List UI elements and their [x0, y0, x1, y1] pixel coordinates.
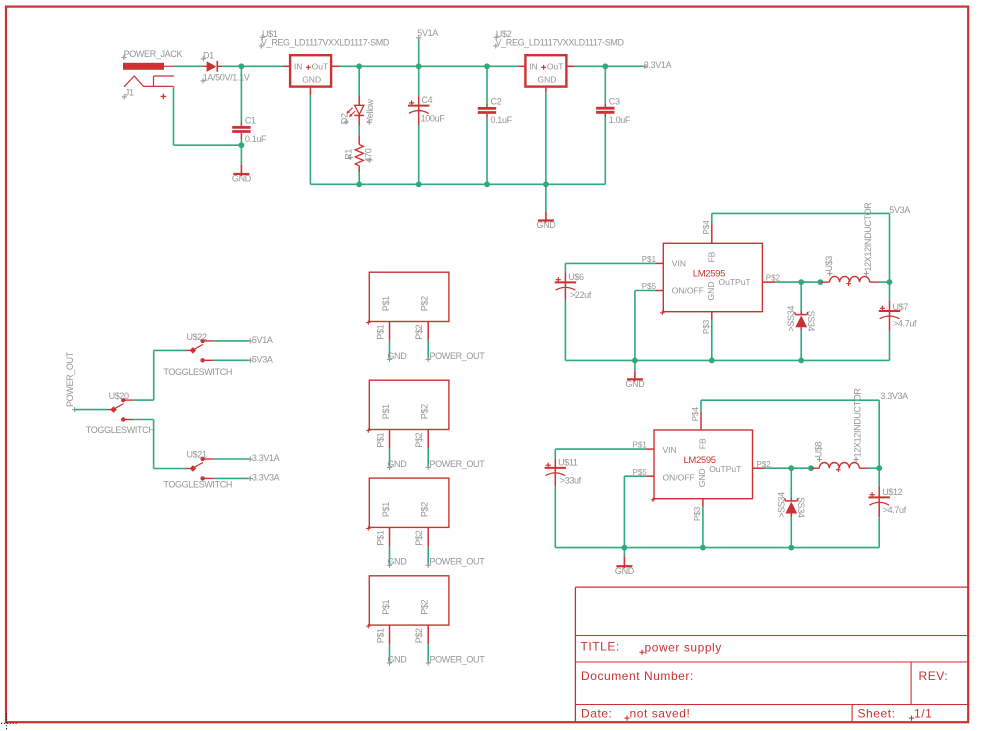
label U$22 [187, 332, 207, 342]
svg-text:GND: GND [697, 468, 707, 487]
pin U$10 GND P$3 [693, 499, 703, 521]
label TOGGLESWITCH U$20 [86, 425, 155, 435]
svg-text:TOGGLESWITCH: TOGGLESWITCH [163, 367, 232, 377]
svg-text:1A/50V/1.1V: 1A/50V/1.1V [203, 73, 250, 83]
svg-text:V_REG_LD1117VXXLD1117-SMD: V_REG_LD1117VXXLD1117-SMD [261, 38, 390, 48]
svg-text:>22uf: >22uf [570, 290, 592, 300]
junction output diode [798, 279, 804, 285]
wire U$6 to VIN [565, 262, 655, 264]
connector J4 pin P$2 [414, 625, 428, 644]
junction bus2 GND pin [700, 545, 706, 551]
junction bus1 ON/OFF [632, 358, 638, 364]
svg-text:OuT: OuT [312, 61, 329, 71]
label POWER_OUT vertical [65, 351, 75, 407]
svg-text:POWER_OUT: POWER_OUT [430, 351, 486, 361]
capacitor C1 0.1uF [232, 116, 267, 145]
net label 5V3A [889, 205, 910, 215]
wire U$21 to 3.3V1A [213, 458, 250, 460]
wire top gnd bus [310, 183, 605, 185]
label U$3 [824, 256, 834, 277]
label D1 [201, 50, 214, 61]
pin U$10 VIN P$1 [633, 441, 655, 450]
svg-text:P$1: P$1 [381, 404, 391, 419]
svg-text:GND: GND [232, 174, 252, 184]
wire LED branch down [358, 66, 360, 96]
inductor U$8 coil [819, 462, 859, 472]
wire inductor to 5V3A node [879, 281, 890, 283]
wire to diode U$4 [800, 282, 802, 312]
svg-text:Date:: Date: [581, 706, 612, 720]
svg-text:OuTPuT: OuTPuT [709, 464, 741, 474]
svg-text:U$12: U$12 [882, 487, 902, 497]
ground GND top section [536, 184, 556, 230]
wire ON/OFF down to bus [634, 291, 636, 361]
ground GND at C1 [232, 145, 252, 184]
wire C4 to gnd bus [418, 125, 420, 185]
wire 5V3A right drop [889, 213, 891, 282]
svg-text:C3: C3 [609, 96, 620, 106]
svg-text:5V3A: 5V3A [252, 354, 273, 364]
pin U$1 GND [309, 87, 311, 96]
title block text not saved! [624, 706, 690, 720]
svg-text:3.3V3A: 3.3V3A [880, 391, 908, 401]
wire POWER_OUT net stub J1 [427, 341, 429, 360]
svg-text:1/1: 1/1 [914, 706, 932, 720]
svg-text:>4.7uf: >4.7uf [883, 505, 907, 515]
svg-text:P$1: P$1 [375, 628, 385, 643]
label U$21 [187, 450, 207, 460]
capacitor C3 1.0uF [596, 96, 631, 125]
wire U$20 throw2 [134, 419, 154, 421]
pin U$2 GND [545, 87, 547, 93]
svg-text:SS34: SS34 [796, 497, 806, 518]
label U$1 [260, 29, 278, 40]
svg-text:POWER_OUT: POWER_OUT [65, 351, 75, 407]
svg-text:V_REG_LD1117VXXLD1117-SMD: V_REG_LD1117VXXLD1117-SMD [496, 38, 625, 48]
junction 3.3V3A node [876, 465, 882, 471]
diode D1 [202, 61, 222, 72]
inductor U$8 lead [811, 467, 819, 469]
connector J1 pin P$1 [375, 322, 389, 341]
svg-text:not saved!: not saved! [630, 706, 691, 720]
junction output 2 diode [788, 465, 794, 471]
wire C2 to gnd bus [486, 117, 488, 184]
ground GND circuit 2 [615, 548, 635, 576]
wire GND net stub J4 [389, 644, 391, 663]
wire U$2 GND down [545, 92, 547, 184]
toggle switch U$22 [186, 339, 213, 363]
pin U$5 GND P$3 [702, 312, 712, 334]
toggle switch U$20 [107, 398, 134, 422]
svg-text:12X12INDUCTOR: 12X12INDUCTOR [853, 388, 863, 458]
svg-text:P$4: P$4 [691, 407, 700, 422]
svg-text:IN: IN [294, 61, 303, 71]
wire to U$22 common [154, 349, 188, 351]
svg-text:>SS34: >SS34 [786, 306, 796, 332]
connector J1 pin P$2 [414, 322, 428, 341]
title block label Sheet [858, 706, 896, 720]
wire J1 return down [173, 86, 175, 145]
svg-text:U$22: U$22 [187, 332, 207, 342]
svg-text:GND: GND [538, 74, 557, 84]
junction bus R1 [356, 181, 362, 187]
net label 3.3V3A at U$21 [248, 472, 280, 482]
title block label REV [919, 669, 949, 683]
capacitor C4 100uF [408, 95, 445, 125]
svg-text:P$2: P$2 [414, 530, 424, 545]
svg-text:OuT: OuT [547, 61, 564, 71]
junction bus1 diode [798, 358, 804, 364]
pin U$2 IN [518, 65, 525, 67]
svg-text:P$4: P$4 [702, 220, 711, 235]
wire to C3 [604, 66, 606, 104]
svg-text:GND: GND [387, 654, 407, 664]
svg-text:C2: C2 [491, 97, 502, 107]
wire GND net stub J1 [389, 341, 391, 360]
net stub 5V1A [416, 35, 421, 66]
connector J3 pin P$2 [414, 527, 428, 546]
wire diode 2 to bus [790, 517, 792, 548]
svg-text:GND: GND [706, 282, 716, 301]
junction bus U$2 GND [543, 181, 549, 187]
svg-text:IN: IN [529, 61, 538, 71]
net stub POWER_OUT to U$20 [72, 407, 107, 412]
wire C1 to gnd node [240, 139, 242, 145]
wire to C2 [486, 66, 488, 104]
wire gnd bus circuit 1 [565, 359, 889, 361]
wire J1 to D1 [173, 65, 202, 67]
svg-text:POWER_OUT: POWER_OUT [430, 459, 486, 469]
label 1A/50V/1.1V [200, 73, 249, 84]
svg-text:P$2: P$2 [420, 599, 430, 614]
connector J2 pin P$1 [375, 430, 389, 449]
junction C2 branch [484, 63, 490, 69]
svg-text:R1: R1 [344, 149, 354, 160]
svg-text:>33uf: >33uf [560, 476, 582, 486]
svg-text:POWER_OUT: POWER_OUT [430, 557, 486, 567]
svg-text:D1: D1 [203, 50, 214, 60]
junction 5V3A node [887, 279, 893, 285]
svg-text:ON/OFF: ON/OFF [663, 472, 695, 482]
svg-text:P$2: P$2 [420, 502, 430, 517]
svg-text:OuTPuT: OuTPuT [719, 277, 751, 287]
wire 3.3V3A right drop [878, 400, 880, 468]
wire OUTPUT to inductor [775, 281, 820, 283]
wire C3 down to gnd bus [604, 117, 606, 184]
net label GND J4 [387, 654, 407, 665]
svg-text:3.3V1A: 3.3V1A [644, 60, 672, 70]
svg-text:U$20: U$20 [109, 391, 129, 401]
pin U$10 ON/OFF P$5 [633, 468, 655, 477]
svg-text:3.3V1A: 3.3V1A [252, 453, 280, 463]
wire U$21 to 3.3V3A [213, 477, 250, 479]
wire gnd bus circuit 2 [555, 547, 879, 549]
label U$20 [109, 391, 129, 401]
net label GND J3 [387, 557, 407, 568]
connector J4 pin P$1 [375, 625, 389, 644]
svg-text:VIN: VIN [672, 258, 686, 268]
capacitor U$6 22uf [555, 263, 592, 300]
label 12X12INDUCTOR circuit 1 [863, 202, 873, 276]
svg-text:Sheet:: Sheet: [858, 706, 896, 720]
label 12X12INDUCTOR circuit 2 [853, 388, 863, 462]
junction inductor in [817, 279, 823, 285]
ground GND circuit 1 [625, 360, 645, 389]
svg-text:U$11: U$11 [558, 457, 578, 467]
svg-text:P$1: P$1 [381, 296, 391, 311]
junction bus2 ON/OFF [622, 545, 628, 551]
pin U$5 VIN P$1 [642, 255, 664, 264]
svg-text:Yellow: Yellow [365, 98, 375, 122]
junction C1 bottom [239, 142, 245, 148]
net label 5V1A [417, 28, 438, 38]
diode U$9 lead [790, 514, 792, 518]
svg-text:TOGGLESWITCH: TOGGLESWITCH [163, 479, 232, 489]
wire U$1 GND down [309, 95, 311, 184]
connector J2 POWER_OUT header box [366, 380, 449, 433]
svg-text:P$1: P$1 [375, 432, 385, 447]
net label POWER_OUT J3 [426, 557, 486, 568]
pin U$1 IN [283, 65, 290, 67]
wire GND net stub J2 [389, 449, 391, 468]
label V_REG_LD1117VXXLD1117-SMD U$2 [493, 38, 624, 49]
svg-text:GND: GND [387, 557, 407, 567]
wire POWER_OUT net stub J4 [427, 644, 429, 663]
wire J1 return across [174, 144, 242, 146]
wire LED to R1 [358, 125, 360, 135]
svg-text:VIN: VIN [663, 445, 677, 455]
svg-text:P$1: P$1 [375, 530, 385, 545]
regulator U$2 LD1117 body [525, 55, 566, 86]
label 470 [363, 148, 373, 162]
wire U$22 to 5V3A [213, 359, 250, 361]
inductor U$3 lead [820, 281, 829, 283]
pin U$1 OUT [331, 65, 340, 67]
wire FB rail top 2 [701, 399, 879, 401]
wire down to C1 [240, 66, 242, 121]
svg-text:U$3: U$3 [824, 256, 834, 272]
svg-text:power supply: power supply [645, 641, 722, 655]
svg-text:P$2: P$2 [420, 404, 430, 419]
power jack J1 [123, 63, 174, 99]
inductor U$3 coil [830, 276, 870, 286]
net label 3.3V3A [880, 391, 908, 401]
wire inductor 2 to 3.3V3A node [868, 467, 879, 469]
wire to U$21 common [154, 468, 188, 470]
label D2 [340, 113, 350, 124]
svg-text:GND: GND [536, 220, 556, 230]
wire U$11 down to bus 2 [554, 486, 556, 547]
svg-text:P$1: P$1 [381, 502, 391, 517]
title block text power supply [639, 641, 721, 655]
wire U$11 to VIN 2 [555, 448, 646, 450]
wire U$6 down to bus [564, 301, 566, 361]
svg-text:U$7: U$7 [893, 302, 909, 312]
junction C4 / 5V1A label [416, 63, 422, 69]
pin U$5 ON/OFF P$5 [642, 282, 664, 291]
svg-text:U$8: U$8 [814, 441, 824, 457]
wire U$20 throw1 [134, 399, 154, 401]
svg-text:100uF: 100uF [421, 113, 446, 123]
svg-text:P$3: P$3 [702, 319, 711, 334]
inductor U$8 lead out [859, 467, 868, 469]
toggle switch U$21 [186, 457, 213, 481]
pin U$10 FB P$4 [691, 407, 701, 430]
svg-text:5V3A: 5V3A [889, 205, 910, 215]
svg-text:FB: FB [697, 438, 707, 449]
title block label TITLE [581, 640, 620, 654]
svg-text:J1: J1 [125, 88, 134, 98]
wire POWER_OUT net stub J2 [427, 449, 429, 468]
label R1 [344, 149, 354, 160]
svg-text:GND: GND [302, 74, 321, 84]
svg-text:TITLE:: TITLE: [581, 640, 620, 654]
svg-text:POWER_OUT: POWER_OUT [430, 654, 486, 664]
title block frame [575, 587, 968, 722]
net label POWER_OUT J1 [426, 351, 486, 362]
title block label Document Number [581, 669, 694, 683]
junction node VIN / C1 [239, 63, 245, 69]
svg-text:C4: C4 [422, 95, 433, 105]
label Yellow [365, 98, 375, 124]
svg-text:SS34: SS34 [806, 311, 816, 332]
schottky diode U$9 SS34 [776, 492, 806, 518]
wire diode to bus [800, 331, 802, 361]
wire trunk up to U$22 [153, 350, 155, 400]
svg-text:>4.7uf: >4.7uf [893, 319, 917, 329]
capacitor U$12 4.7uf [869, 468, 907, 517]
svg-text:0.1uF: 0.1uF [491, 115, 513, 125]
junction bus C4 [416, 181, 422, 187]
net label 5V3A at U$22 [248, 354, 273, 364]
svg-text:3.3V3A: 3.3V3A [252, 472, 280, 482]
connector J4 POWER_OUT header box [366, 576, 449, 629]
svg-text:TOGGLESWITCH: TOGGLESWITCH [86, 425, 155, 435]
svg-text:5V1A: 5V1A [417, 28, 438, 38]
connector J1 POWER_OUT header box [366, 272, 449, 325]
sheet origin dotted cross [1, 714, 17, 731]
wire U$22 to 5V1A [213, 340, 250, 342]
wire FB rail top [712, 212, 890, 214]
label V_REG_LD1117VXXLD1117-SMD U$1 [259, 38, 390, 49]
pin U$10 OUTPUT P$2 [753, 460, 772, 469]
svg-text:GND: GND [387, 459, 407, 469]
svg-text:12X12INDUCTOR: 12X12INDUCTOR [863, 202, 873, 272]
connector J3 pin P$1 [375, 527, 389, 546]
label J1 [122, 88, 134, 100]
wire 5V1A rail U$1 OUT to U$2 IN [340, 65, 519, 67]
svg-text:P$3: P$3 [693, 506, 702, 521]
wire ON/OFF [635, 290, 656, 292]
schottky diode U$4 SS34 [786, 306, 816, 332]
net label 3.3V1A at U$21 [248, 453, 280, 463]
wire FB up [711, 213, 713, 224]
wire FB 2 up [700, 400, 702, 411]
net label 5V1A at U$22 [248, 335, 273, 345]
pin U$2 OUT [566, 65, 574, 67]
label POWER_JACK [121, 49, 182, 60]
svg-text:GND: GND [625, 379, 645, 389]
net label POWER_OUT J4 [426, 654, 486, 665]
label U$2 [494, 29, 512, 40]
svg-text:C1: C1 [245, 116, 256, 126]
wire ON/OFF 2 [624, 475, 646, 477]
wire POWER_OUT net stub J3 [427, 546, 429, 565]
svg-text:5V1A: 5V1A [252, 335, 273, 345]
svg-text:POWER_JACK: POWER_JACK [124, 49, 183, 59]
svg-text:>SS34: >SS34 [776, 492, 786, 518]
resistor R1 470 [355, 135, 363, 172]
wire U$2 OUT to 3.3V1A [575, 65, 645, 67]
label U$8 [814, 441, 824, 462]
label TOGGLESWITCH U$21 [163, 479, 232, 489]
regulator U$5 LM2595 body [660, 243, 762, 315]
svg-text:ON/OFF: ON/OFF [672, 286, 704, 296]
junction LED branch [356, 63, 362, 69]
pin U$5 OUTPUT P$2 [762, 274, 780, 283]
junction C3 branch [602, 63, 608, 69]
wire U$12 to bus 2 [878, 517, 880, 547]
connector J3 POWER_OUT header box [366, 478, 449, 531]
inductor U$3 lead out [870, 281, 879, 283]
svg-text:GND: GND [615, 566, 635, 576]
junction bus1 GND pin [709, 358, 715, 364]
capacitor C2 0.1uF [478, 97, 513, 126]
connector J2 pin P$2 [414, 430, 428, 449]
wire D1 to U$1 IN [222, 65, 283, 67]
svg-text:U$6: U$6 [568, 272, 584, 282]
title block text 1/1 [909, 706, 932, 720]
svg-text:P$1: P$1 [375, 324, 385, 339]
svg-text:REV:: REV: [919, 669, 949, 683]
junction bus2 diode [788, 545, 794, 551]
svg-text:GND: GND [387, 351, 407, 361]
svg-text:FB: FB [707, 251, 717, 262]
label TOGGLESWITCH U$22 [163, 367, 232, 377]
wire GND pin 2 down [702, 507, 704, 548]
svg-text:P$1: P$1 [381, 599, 391, 614]
svg-text:D2: D2 [340, 113, 350, 124]
wire GND net stub J3 [389, 546, 391, 565]
wire trunk down to U$21 [153, 420, 155, 469]
svg-text:P$2: P$2 [414, 432, 424, 447]
svg-text:0.1uF: 0.1uF [245, 134, 267, 144]
wire to diode U$9 [790, 468, 792, 498]
svg-text:Document Number:: Document Number: [581, 669, 694, 683]
wire OUTPUT 2 to inductor [765, 467, 812, 469]
svg-text:1.0uF: 1.0uF [609, 115, 631, 125]
capacitor U$11 33uf [545, 449, 582, 486]
svg-text:P$2: P$2 [414, 628, 424, 643]
net label GND J2 [387, 459, 407, 470]
wire U$7 to bus [889, 331, 891, 361]
junction inductor 2 in [808, 465, 814, 471]
LED D2 [346, 97, 364, 126]
wire R1 to gnd bus [358, 172, 360, 184]
net label GND J1 [387, 351, 407, 362]
title block label Date [581, 706, 612, 720]
wire to C4 [418, 66, 420, 96]
svg-text:P$2: P$2 [420, 296, 430, 311]
regulator U$1 LD1117 body [290, 55, 331, 86]
wire GND pin down [711, 320, 713, 361]
diode U$4 lead [800, 327, 802, 331]
net label POWER_OUT J2 [426, 459, 486, 470]
pin U$5 FB P$4 [702, 220, 712, 244]
capacitor U$7 4.7uf [879, 282, 917, 331]
svg-text:U$21: U$21 [187, 450, 207, 460]
regulator U$10 LM2595 body [651, 430, 753, 502]
